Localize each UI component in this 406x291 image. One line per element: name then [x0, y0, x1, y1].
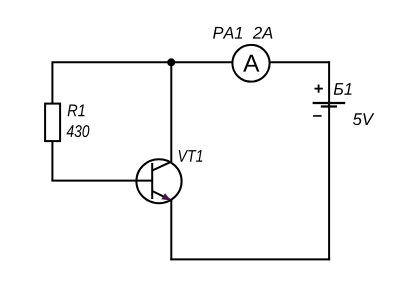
wire emitter vertical down — [170, 200, 172, 260]
label 2A — [253, 27, 273, 39]
wire left vertical below resistor — [51, 141, 53, 181]
label B1 — [334, 83, 352, 95]
label 430 — [67, 125, 90, 137]
ammeter PA1 — [232, 45, 269, 82]
wire ammeter to right corner — [268, 61, 330, 63]
wire right vertical (battery branch) — [328, 61, 330, 260]
wire collector vertical from junction to transistor — [170, 62, 172, 162]
label 5V — [353, 113, 374, 125]
label R1 — [68, 105, 85, 117]
battery B1 positive plate (long) — [313, 102, 346, 104]
transistor VT1 — [136, 159, 181, 203]
wire bottom horizontal — [170, 258, 330, 260]
resistor R1 body — [45, 104, 60, 142]
label plus sign — [315, 85, 323, 93]
wire base horizontal to transistor — [51, 180, 152, 182]
label PA1 2A — [213, 27, 242, 39]
wire top-left horizontal from corner to ammeter — [52, 62, 232, 103]
battery B1 negative plate (short) — [321, 105, 337, 107]
label VT1 — [179, 150, 203, 162]
node junction dot — [167, 58, 175, 66]
label minus sign — [313, 115, 322, 117]
